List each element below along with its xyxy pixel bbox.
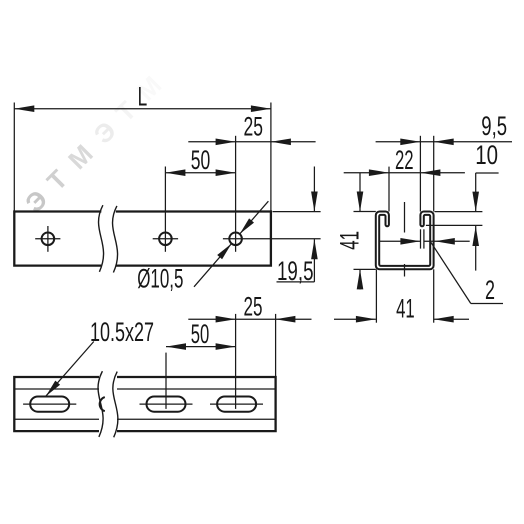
ext line left end top strip [13, 103, 15, 212]
dim 41 bottom line right part [434, 318, 469, 320]
hole1 centerline vertical [47, 226, 49, 252]
svg-text:10.5x27: 10.5x27 [90, 317, 154, 347]
dim 41 left vertical lower segment [359, 269, 361, 289]
bottom strip inner fold lines [14, 389, 275, 419]
dim 9,5 line [376, 141, 512, 143]
ext line 19,5 top reference [273, 211, 321, 213]
clipped slot end cap [100, 397, 105, 411]
arrow 10 top [472, 192, 479, 212]
dim 10 vertical lower segment [475, 226, 477, 271]
slot1 centerline [23, 403, 76, 405]
ext line right end top strip [270, 103, 272, 212]
arrow 25 bottom at slot3 [216, 316, 236, 323]
ext line lip top reference right [435, 211, 483, 213]
svg-text:М: М [131, 70, 168, 107]
arrow 25 top at hole3 [216, 139, 236, 146]
centerline profile lower segment [404, 264, 406, 277]
slot 3 [217, 397, 256, 412]
arrow 25 bottom at edge [275, 316, 295, 323]
arrow 41 left bottom [357, 269, 364, 289]
ext line hole3 vertical [235, 136, 237, 252]
svg-text:41: 41 [334, 231, 364, 250]
dim 50 bottom line [166, 346, 236, 348]
dim 19,5 vertical lower segment [313, 239, 315, 282]
dim 2 line right part [424, 240, 470, 242]
ext line lip tip reference right [426, 224, 483, 226]
arrow 50 top left [165, 169, 185, 176]
channel profile section [376, 212, 434, 270]
arrow 10 bottom [472, 226, 479, 246]
ext line lip face b [423, 229, 425, 248]
dim 41 left vertical upper segment [359, 173, 361, 212]
break wave 2 top strip [113, 206, 118, 273]
arrow 25 top at edge [271, 139, 291, 146]
hole 3 [229, 233, 242, 246]
ext line lip face a [420, 229, 422, 248]
dim 25 bottom line [188, 318, 311, 320]
centerline profile upper segment [404, 202, 406, 233]
slot 1 [30, 397, 69, 412]
shelf line 10 [476, 172, 499, 174]
dim 25 top line [188, 141, 315, 143]
svg-text:22: 22 [395, 145, 414, 175]
hole1 centerline horizontal [35, 238, 60, 240]
svg-text:Ø10,5: Ø10,5 [137, 264, 183, 294]
svg-text:2: 2 [485, 275, 495, 305]
arrow 2 right [435, 238, 455, 245]
arrow 22 right [420, 169, 440, 176]
dim 10 vertical upper segment [475, 173, 477, 212]
arrow dia leader lower [217, 244, 231, 260]
top strip outline [14, 212, 271, 266]
svg-text:9,5: 9,5 [481, 111, 507, 141]
arrow 41 bottom left [356, 316, 376, 323]
svg-text:Э: Э [19, 184, 53, 218]
arrow dia leader upper [240, 218, 254, 234]
leader 2 diagonal [431, 242, 471, 303]
svg-text:19,5: 19,5 [277, 256, 314, 286]
svg-text:50: 50 [191, 145, 211, 175]
ext line profile left wall down [375, 269, 377, 322]
ext line right wall vertical [433, 136, 435, 212]
hole2 centerline horizontal [153, 238, 178, 240]
break wave 1 bottom strip [98, 371, 103, 437]
ext line profile top-left reference [354, 211, 376, 213]
svg-text:М: М [62, 139, 99, 176]
ext line slot2 vertical [165, 353, 167, 409]
leader 10.5x27 [46, 342, 94, 397]
hole 1 [42, 233, 55, 246]
dim L line [14, 108, 271, 110]
arrow 9,5 left [400, 139, 420, 146]
ext line bottom strip right edge [275, 314, 277, 377]
dim 2 line left part [380, 240, 421, 242]
arrow 9,5 right [434, 139, 454, 146]
svg-text:Э: Э [88, 115, 122, 149]
arrow 50 bottom right [216, 343, 236, 350]
hole 2 [159, 233, 172, 246]
dim 41 bottom line left part [334, 318, 376, 320]
shelf line 2 [471, 303, 503, 305]
slot 2 [147, 397, 186, 412]
ext line profile right wall down [433, 269, 435, 322]
break wave 1 top strip [99, 205, 104, 272]
svg-text:Т: Т [41, 164, 74, 197]
leader dia 10,5 lower segment [194, 244, 232, 287]
arrow 2 left [400, 238, 420, 245]
arrow L right [251, 105, 271, 112]
slot2 centerline [140, 403, 193, 405]
dim 22 line [344, 172, 465, 174]
slot3 centerline [210, 403, 263, 405]
arrow 19,5 top [311, 192, 318, 212]
arrow leader 10.5x27 [46, 381, 60, 397]
svg-text:50: 50 [191, 319, 210, 349]
dim 19,5 vertical upper segment [313, 167, 315, 212]
dim 50 top line [165, 172, 235, 174]
arrow 19,5 bottom [311, 239, 318, 259]
shelf line 19,5 [277, 281, 315, 283]
break wave 2 bottom strip [113, 372, 118, 438]
arrow 50 top right [216, 169, 236, 176]
arrow 22 left [369, 169, 389, 176]
watermark ETM diagonal [19, 70, 167, 218]
svg-text:25: 25 [244, 111, 264, 141]
leader dia 10,5 upper segment [240, 201, 269, 234]
arrow 41 left top [357, 192, 364, 212]
ext line left lip vertical [388, 167, 390, 212]
ext line profile bottom-left reference [354, 268, 376, 270]
bottom strip outline [14, 377, 275, 431]
svg-text:L: L [138, 82, 148, 112]
arrow 41 bottom right [434, 316, 454, 323]
arrow 50 bottom left [166, 343, 186, 350]
svg-text:25: 25 [244, 292, 263, 322]
ext line right lip vertical [419, 136, 421, 212]
ext line hole2 vertical [164, 167, 166, 252]
arrow L left [14, 105, 34, 112]
svg-text:41: 41 [396, 294, 415, 324]
hole3 centerline horizontal long to 19,5 [223, 238, 321, 240]
ext line slot3 vertical [235, 314, 237, 409]
svg-text:10: 10 [475, 140, 498, 170]
